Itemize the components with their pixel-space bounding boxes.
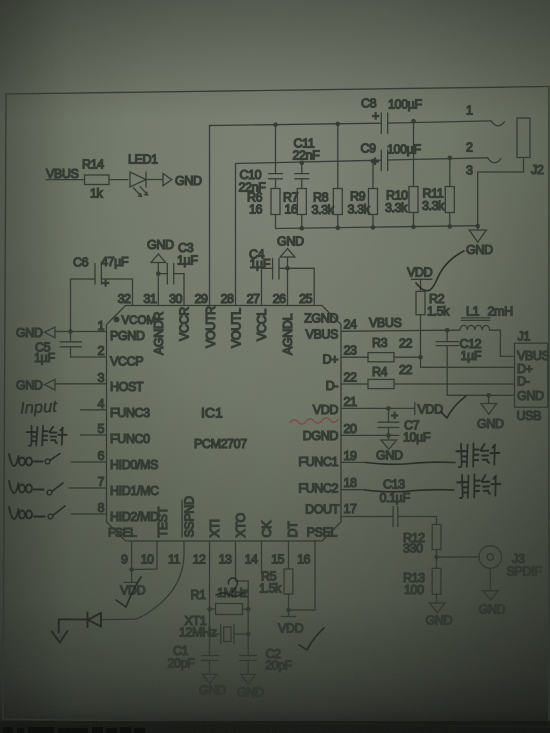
IC U1 PCM2707 body: [107, 306, 342, 542]
wire column R9: [372, 161, 374, 228]
pin 8 wire HID2/MD: [71, 513, 107, 515]
switch SW3 contact: [48, 506, 65, 519]
bottom photo caption strip: [0, 721, 550, 733]
wire C3 node: [158, 273, 184, 275]
pin 12 stub XTI column: [209, 541, 211, 674]
wire jack sleeve (line 3) to ground rail: [466, 158, 524, 227]
resistor R12 330: [403, 525, 441, 558]
wire C7 stem: [388, 408, 390, 435]
wire LED1 to GND: [146, 179, 163, 181]
pin 7 wire HID1/MC: [69, 487, 107, 489]
capacitor C1 20pF: [168, 644, 219, 671]
capacitor C12 1uF: [436, 330, 515, 395]
capacitor C11 22nF: [293, 137, 321, 229]
squiggle over R1 value: [216, 578, 244, 596]
handwritten VDD with switch at HID2/MD: [9, 507, 45, 519]
wire R2 to D+ node: [420, 315, 422, 358]
wire column R8: [337, 124, 339, 228]
capacitor C2 20pF: [240, 647, 293, 673]
resistor R3 22: [368, 336, 413, 362]
red ink scribble at DGND: [290, 418, 338, 424]
capacitor C13 0.1uF: [380, 478, 411, 527]
pin 13 stub XTO column (jog): [236, 541, 249, 674]
IC bottom pin labels (vertical): [156, 496, 300, 537]
wire R14 to LED1: [109, 179, 128, 181]
power flag VDD at DT/PSEL: [278, 610, 304, 636]
wire R3 to J1 D+ (jog): [394, 357, 515, 367]
wire C8 to jack tip (line 1): [388, 104, 505, 126]
wire R1 to XTI/XTO columns: [210, 608, 249, 610]
resistor R8 3.3k: [312, 124, 343, 228]
handwritten wire FUNC2 to header: [365, 490, 454, 492]
power flag VDD at FSEL/TEST: [120, 570, 146, 598]
ground symbol near J1: [477, 395, 504, 431]
pin 6 wire HID0/MS: [71, 461, 107, 463]
handwritten VDD with switch at HID1/MC: [9, 481, 44, 493]
wire R12 to node: [436, 550, 438, 558]
resistor R2 1.5k: [416, 291, 450, 357]
ground symbol at C2: [237, 674, 264, 699]
wire column C10/R6: [275, 125, 277, 229]
handwritten VDD with switch at HID0/MS: [9, 454, 43, 466]
ground symbol at C1: [199, 674, 226, 697]
junction dots output network: [273, 119, 480, 231]
LED LED1: [128, 153, 158, 197]
wire column R11: [449, 158, 451, 227]
ground arrow at D1 (hand drawn): [52, 631, 68, 643]
handwritten note paizhen at FUNC0: [27, 426, 67, 446]
handwritten wire FUNC1 to header: [366, 462, 455, 464]
resistor R13 100: [403, 557, 441, 603]
pin 4 wire FUNC3: [80, 409, 106, 411]
switch SW1 contact: [45, 454, 60, 464]
pin 27 stub / wire VCCL: [261, 268, 263, 305]
handwritten note paizhen at FUNC1: [456, 442, 500, 467]
pin 17 wire DOUT: [341, 516, 393, 518]
wire R5 to VDD node: [288, 594, 290, 610]
pin 22 wire D-: [341, 383, 368, 385]
pin 14 stub CK (n.c.): [261, 541, 263, 574]
wire column C11/R7: [301, 163, 303, 229]
pin 23 wire D+: [341, 356, 368, 358]
wire C12 stem to J1 GND: [447, 330, 514, 395]
capacitor C5 1uF: [34, 332, 107, 366]
resistor R10 3.3k: [385, 121, 418, 227]
wire C4 node: [262, 267, 288, 269]
ground symbol at R13: [426, 603, 453, 628]
wire R13 to ground: [436, 557, 438, 603]
handwritten annotations layer: [9, 251, 501, 650]
ground symbol output rail: [466, 226, 493, 257]
capacitor C9 100uF: [361, 142, 422, 171]
pin 11 stub SSPND wire (curved): [101, 541, 184, 620]
resistor R14: [82, 158, 109, 201]
switch SW2 contact: [47, 483, 63, 495]
pin 20 wire DGND: [341, 434, 399, 436]
power flag VDD for R2: [407, 266, 433, 292]
wire column R10: [413, 121, 415, 227]
ground flag (left arrow) at PGND: [16, 326, 55, 340]
pin stubs top row (31,30,27,26 short): [133, 268, 315, 305]
ground symbol at C4 (arrow up): [277, 235, 304, 269]
pin 21 wire VDD: [341, 407, 415, 409]
IC pin numbers left column: [98, 319, 105, 515]
IC pin numbers bottom row: [121, 553, 310, 567]
pins 9,10 stubs joined to VDD: [132, 541, 157, 570]
pin 16 stub PSEL to VDD node: [289, 541, 316, 610]
power flag VDD at pin 21: [415, 403, 443, 417]
pin 25 stub / wire ZGND: [288, 268, 315, 305]
wire net VOUTL (pin28 up, rail to C9): [236, 160, 382, 305]
wire C13 to R12: [398, 517, 437, 525]
wire VBUS to R14: [46, 179, 85, 181]
connector J3 SPDIF: [479, 546, 542, 591]
resistor R9 3.3k: [348, 161, 378, 228]
wire R4 to J1 D-: [394, 383, 515, 385]
IC right pin labels: [298, 312, 339, 540]
resistor R1 1M: [191, 586, 249, 615]
IC left pin labels: [108, 329, 159, 540]
check mark at VDD R2: [416, 251, 464, 291]
check mark at VDD FSEL: [116, 577, 141, 607]
handwritten note paizhen at FUNC2: [457, 473, 501, 498]
resistor R7 16: [283, 189, 306, 217]
capacitor C4 1uF: [249, 248, 288, 280]
ground flag (right arrow) LED branch: [163, 174, 202, 189]
crystal XT1 12MHz: [179, 614, 248, 644]
connector J2 (phone jack body): [517, 118, 544, 177]
ground symbol at DGND/C7: [376, 435, 403, 462]
IC top pin labels (vertical): [152, 306, 295, 355]
capacitor C6 47uF: [71, 255, 133, 332]
wire VBUS dot to L1 and to J1 VBUS: [447, 330, 514, 356]
wire VCOM to C6 to PGND node: [71, 279, 133, 332]
capacitor C8 100uF: [361, 97, 422, 134]
wire C5 to VCCP: [71, 332, 107, 358]
capacitor C7 10uF: [378, 408, 431, 444]
pin 24 wire VBUS net: [341, 316, 447, 331]
IC pin numbers right column: [344, 318, 357, 517]
resistor R11 3.3k: [422, 158, 454, 227]
check mark at VDD DT/PSEL: [299, 628, 324, 650]
pin 18 wire FUNC2: [341, 489, 365, 491]
resistor R6 16: [247, 189, 280, 217]
ground flag (left arrow) at HOST: [16, 378, 55, 392]
wire node to J3: [437, 556, 480, 558]
resistor R5 1.5k: [259, 569, 293, 610]
node VBUS (LED branch): [46, 167, 85, 181]
capacitor C3 1uF: [158, 241, 198, 284]
check mark at VDD pin21: [441, 396, 466, 418]
inductor L1 2mH: [447, 305, 514, 357]
ground symbol at J3: [479, 591, 506, 617]
junction dots center/right: [68, 266, 491, 636]
pin 3 wire HOST to GND: [55, 383, 107, 385]
pin 31 stub / wire AGNDR: [157, 274, 159, 306]
pin 5 wire FUNC0: [80, 434, 106, 436]
wire net VOUTR (pin29 up, rail to C8): [210, 123, 382, 305]
ground symbol at C3 (arrow up): [147, 238, 174, 274]
diode D1 on SSPND wire (hand drawn): [59, 613, 101, 633]
connector J1 USB: [515, 330, 550, 424]
pin 1 wire PGND: [55, 331, 107, 333]
pin 19 wire FUNC1: [341, 461, 366, 463]
wire C9 to jack ring (line 2): [388, 141, 501, 163]
pin 15 stub DT to R5: [288, 541, 290, 569]
pin 30 stub / wire VCCR: [183, 274, 185, 306]
IC pin numbers top row: [118, 292, 313, 306]
wire XT1 to columns: [210, 633, 249, 635]
resistor R4 22: [368, 363, 413, 389]
pin 26 stub / wire AGNDL: [287, 268, 289, 305]
capacitor C10 22nF: [239, 125, 283, 229]
wire J3 to ground: [489, 568, 491, 590]
wire analog ground rail: [276, 226, 478, 229]
pin 32 stub / wire VCOM: [132, 279, 134, 306]
